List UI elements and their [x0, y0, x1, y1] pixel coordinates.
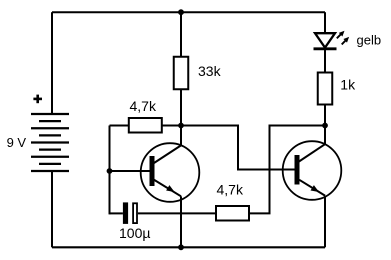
- wire bottom rail: [52, 246, 325, 248]
- wire T2 collector node to circle: [324, 126, 326, 145]
- LED light arrow 1: [337, 31, 345, 39]
- wire battery to bottom rail: [51, 171, 53, 247]
- transistor T1 collector stroke: [154, 145, 181, 163]
- wire left vertical: [109, 126, 111, 215]
- capacitor 100µ positive plate: [123, 202, 128, 224]
- wire capacitor to 4,7k lower: [138, 212, 216, 214]
- wire T1 emitter to bottom rail: [180, 196, 182, 247]
- junction bottom rail node: [178, 244, 184, 250]
- battery 9V plates: [31, 114, 69, 171]
- wire T2 emitter to bottom rail: [324, 196, 326, 248]
- wire node A zigzag to T2 base: [181, 126, 295, 170]
- resistor 4,7k lower: [216, 206, 249, 221]
- LED light arrow 2: [342, 37, 349, 45]
- junction T2 collector node: [322, 123, 328, 129]
- svg-text:4,7k: 4,7k: [217, 182, 244, 198]
- wire left vertical to capacitor: [110, 212, 123, 214]
- wire 4,7k lower up to T2 collector node: [249, 126, 325, 214]
- svg-text:1k: 1k: [340, 77, 356, 93]
- junction base T1 node: [107, 168, 113, 174]
- wire top rail to 33k: [180, 12, 182, 56]
- transistor T2 base bar: [295, 155, 300, 185]
- transistor T2 circle: [283, 141, 342, 200]
- wire 1k to T2 collector node: [324, 106, 326, 126]
- svg-text:100µ: 100µ: [119, 225, 150, 241]
- LED cathode bar: [314, 47, 337, 50]
- wire 33k to node A: [180, 90, 182, 126]
- wire 4,7k upper to left vertical: [110, 125, 129, 127]
- junction top rail node: [178, 9, 184, 15]
- transistor T1 emitter stroke with arrow: [154, 180, 181, 197]
- resistor 4,7k upper: [129, 118, 162, 133]
- LED diode triangle: [315, 33, 335, 47]
- transistor T2 emitter stroke with arrow: [299, 180, 325, 196]
- svg-text:33k: 33k: [198, 63, 222, 79]
- svg-text:9 V: 9 V: [7, 135, 27, 150]
- wire node A to T1 collector: [180, 126, 182, 146]
- wire node A to 4,7k upper: [162, 125, 182, 127]
- wire top rail to LED: [324, 12, 326, 33]
- resistor 1k: [318, 73, 333, 105]
- wire left drop to battery: [51, 12, 53, 114]
- battery plus sign: [33, 95, 42, 104]
- transistor T1 base bar: [150, 156, 155, 186]
- capacitor 100µ negative plate: [133, 203, 137, 223]
- wire base T1: [110, 170, 150, 172]
- transistor T2 collector stroke: [299, 144, 325, 161]
- transistor T1 circle: [141, 143, 200, 202]
- wire top rail: [52, 11, 325, 13]
- resistor 33k: [174, 57, 189, 90]
- wire LED to 1k: [324, 50, 326, 72]
- svg-text:gelb: gelb: [357, 33, 382, 48]
- svg-text:4,7k: 4,7k: [130, 98, 157, 114]
- junction node A: [178, 123, 184, 129]
